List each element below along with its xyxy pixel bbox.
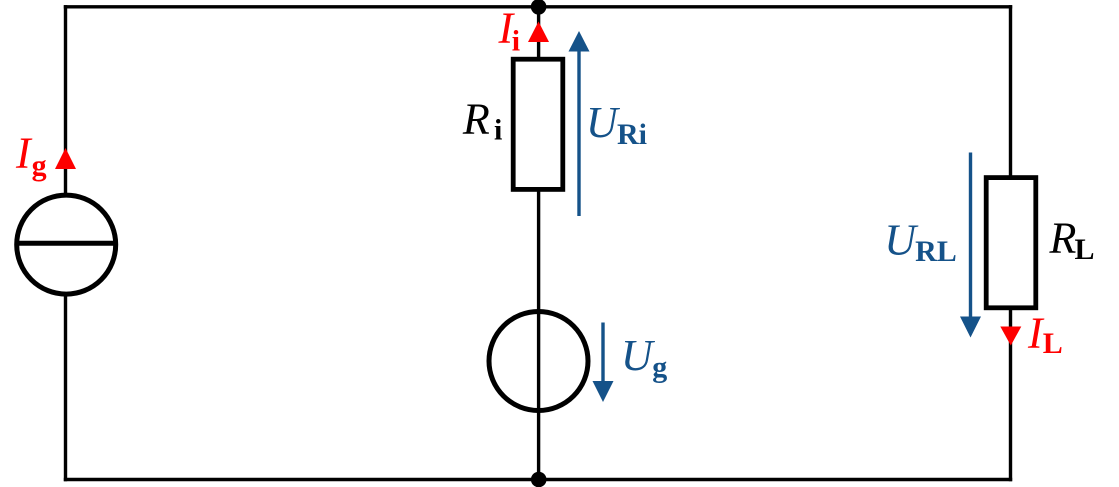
wire: left branch lower segment — [64, 296, 67, 482]
svg-text:i: i — [494, 114, 502, 147]
current arrow I_g head — [55, 148, 76, 169]
svg-text:I: I — [15, 129, 33, 178]
svg-text:Ri: Ri — [617, 118, 647, 151]
svg-text:g: g — [652, 351, 667, 384]
resistor Ri body — [513, 59, 563, 189]
voltage arrow U_RL head — [960, 317, 981, 338]
current source bar — [15, 241, 117, 246]
svg-text:i: i — [512, 25, 520, 58]
svg-text:U: U — [884, 215, 919, 264]
current arrow I_i head — [528, 22, 549, 43]
wire: right branch upper segment — [1009, 5, 1012, 176]
svg-text:RL: RL — [915, 235, 957, 268]
node: bottom junction — [531, 472, 547, 487]
wire: top rail — [64, 5, 1012, 8]
voltage arrow U_g head — [593, 381, 614, 402]
current source I_g circle — [17, 195, 116, 294]
svg-text:L: L — [1075, 233, 1095, 266]
svg-text:R: R — [1049, 213, 1077, 262]
voltage source U_g circle — [489, 312, 588, 411]
voltage arrow U_Ri head — [569, 31, 590, 52]
wire: left branch upper segment — [64, 5, 67, 194]
wire: bottom rail — [64, 478, 1012, 481]
resistor RL body — [986, 178, 1036, 308]
current arrow I_L head — [1000, 327, 1021, 346]
wire: middle branch lower segment (through source) — [537, 190, 540, 480]
voltage arrow U_Ri shaft — [577, 48, 580, 216]
voltage arrow U_g shaft — [601, 323, 604, 386]
svg-text:U: U — [586, 98, 621, 147]
wire: right branch lower segment — [1009, 309, 1012, 482]
wire: middle branch upper segment — [537, 7, 540, 60]
node: top junction — [531, 0, 547, 15]
svg-text:R: R — [462, 94, 490, 143]
voltage arrow U_RL shaft — [969, 153, 972, 321]
svg-text:g: g — [32, 149, 47, 182]
svg-text:L: L — [1043, 327, 1063, 360]
svg-text:U: U — [621, 331, 656, 380]
